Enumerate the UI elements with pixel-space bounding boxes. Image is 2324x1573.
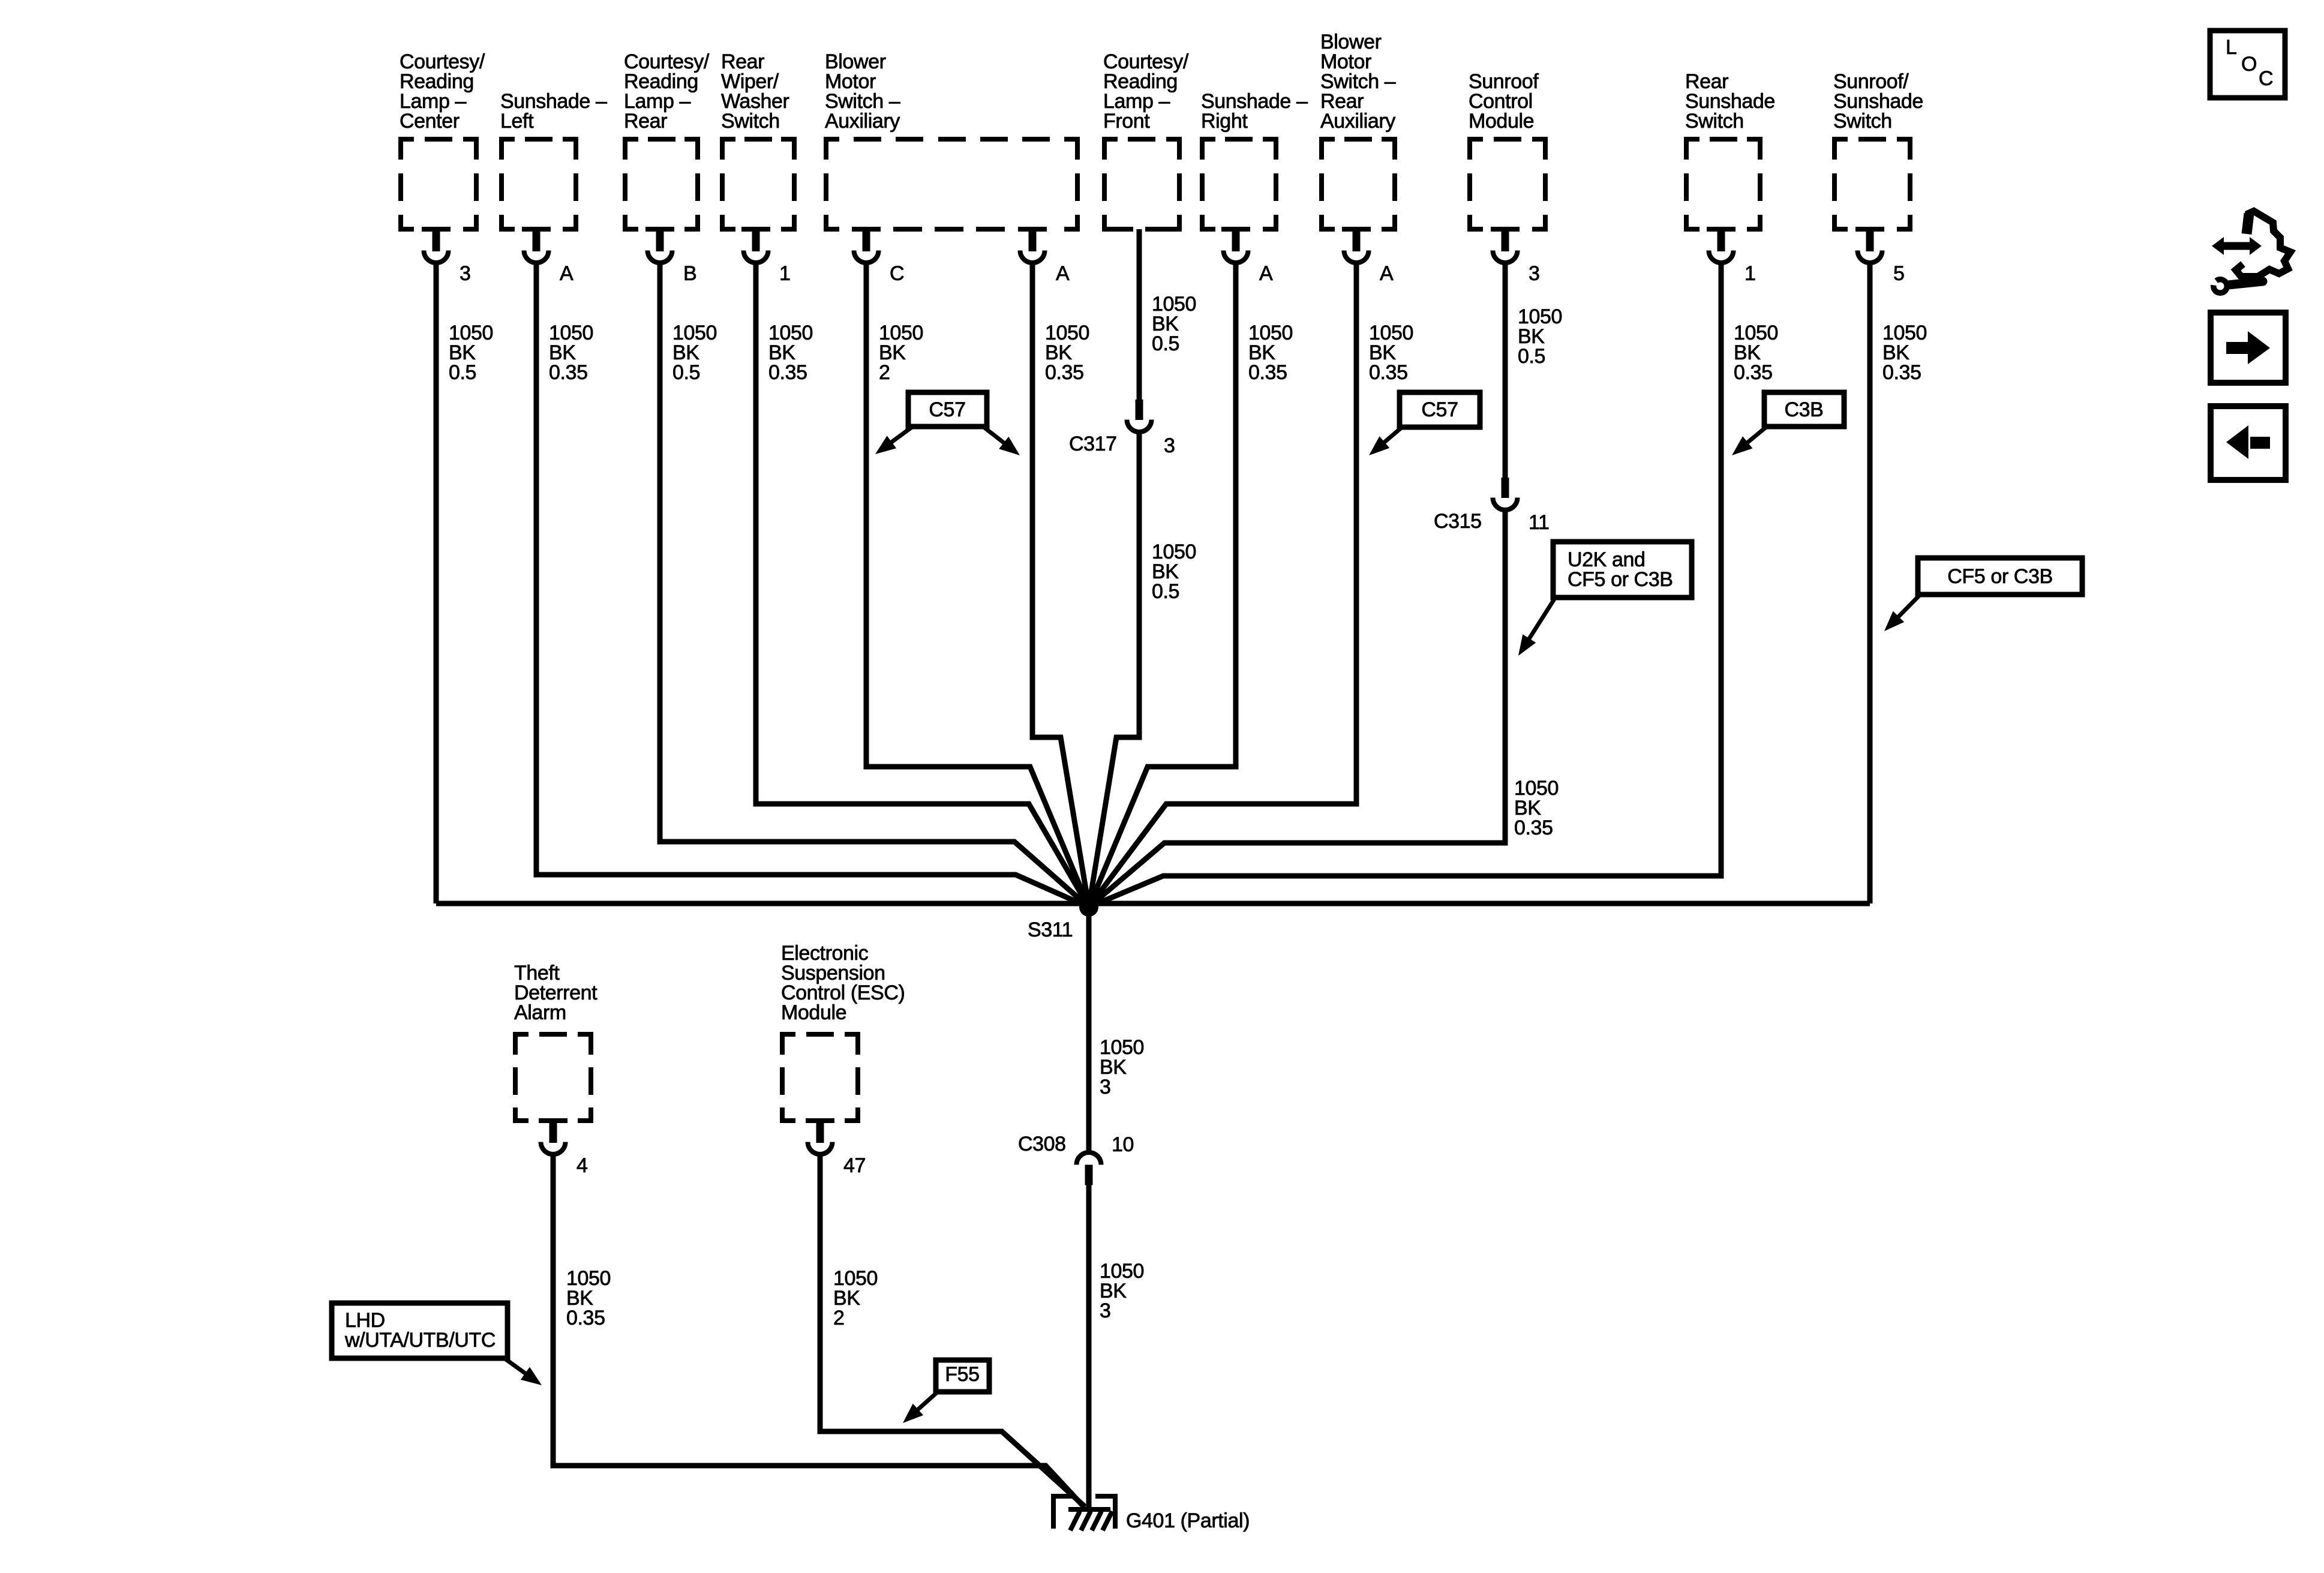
wire label 1050 BK (Sunroof Control Module) [1518,305,1562,368]
svg-text:Module: Module [781,1001,846,1024]
wire from Courtesy/Reading Lamp - Rear pin B to S311 [660,265,1089,907]
wire label 1050 BK (Courtesy/Reading Lamp - Rear) [672,322,717,384]
wire label 1050 BK 0.5 (below C317) [1152,541,1196,603]
component Blower Motor Switch - Rear Auxiliary [1319,31,1397,232]
wire from Theft Deterrent Alarm pin 4 to G401 [553,1156,1085,1508]
connector pin A of Blower Motor Switch - Auxiliary [1020,228,1070,285]
svg-text:2: 2 [879,361,890,384]
wire label 1050 BK (Blower Motor Switch - Rear Auxiliary) [1369,322,1413,384]
svg-text:Front: Front [1103,110,1150,133]
wire label 1050 BK 3 (C308 to G401) [1100,1260,1144,1322]
label CF5 or C3B [1918,558,2082,595]
connector pin A of Sunshade - Right [1224,228,1274,285]
svg-text:3: 3 [1100,1076,1111,1098]
arrow C57 to Blower Motor Switch - Rear Auxiliary wire [1379,428,1401,447]
svg-text:0.35: 0.35 [1882,361,1921,384]
component Theft Deterrent Alarm [513,962,597,1123]
svg-text:CF5 or C3B: CF5 or C3B [1947,565,2053,588]
svg-text:C315: C315 [1434,510,1482,533]
svg-text:Alarm: Alarm [514,1001,566,1024]
wire from Rear Sunshade Switch pin 1 to S311 [1089,265,1721,907]
arrow C57 to Blower Motor Switch - Auxiliary pin C wire [886,427,912,446]
wire label 1050 BK (Courtesy/Reading Lamp - Center) [449,322,493,384]
wire from Sunshade - Left pin A to S311 [536,265,1089,907]
component Rear Sunshade Switch [1684,70,1775,232]
component Sunshade - Right [1200,90,1308,232]
connector pin 4 of Theft Deterrent Alarm [541,1119,588,1177]
label F55 [936,1360,989,1392]
svg-text:C308: C308 [1018,1133,1066,1155]
wire from Sunroof Control Module pin 3 to C315 [1503,265,1508,478]
connector C308 pin 10 [1018,1133,1134,1185]
svg-text:Left: Left [500,110,534,133]
connector pin A of Blower Motor Switch - Rear Auxiliary [1344,228,1394,285]
connector pin B of Courtesy/Reading Lamp - Rear [648,228,697,285]
svg-text:C: C [890,262,904,285]
svg-text:0.35: 0.35 [549,361,588,384]
forward-arrow legend box [2211,313,2286,383]
svg-text:10: 10 [1112,1133,1134,1156]
svg-text:L: L [2226,36,2237,59]
component Electronic Suspension Control (ESC) Module [780,942,905,1123]
wire from S311 to C308 [1086,907,1092,1151]
wire label 1050 BK (Blower Motor Switch - Auxiliary) [1045,322,1089,384]
svg-text:0.5: 0.5 [1152,332,1179,355]
svg-text:0.35: 0.35 [768,361,807,384]
svg-text:C317: C317 [1069,433,1117,455]
component Courtesy/Reading Lamp - Front [1102,50,1189,232]
svg-text:11: 11 [1529,511,1550,534]
component Rear Wiper/Washer Switch [720,50,797,232]
wire from Courtesy/Reading Lamp - Front to C317 [1137,229,1142,400]
svg-text:Module: Module [1469,110,1534,133]
svg-text:0.5: 0.5 [449,361,476,384]
svg-text:3: 3 [1100,1299,1111,1322]
wire label 1050 BK (Sunshade - Left) [549,322,593,384]
arrow F55 to ESC Module wire [912,1392,937,1414]
svg-text:47: 47 [843,1154,866,1177]
label U2K and CF5 or C3B [1553,542,1692,598]
svg-text:Auxiliary: Auxiliary [1320,110,1395,133]
svg-text:Switch: Switch [1685,110,1744,133]
back-arrow legend box [2211,406,2286,480]
svg-text:Center: Center [400,110,460,133]
splice S311 [1028,897,1098,941]
wire label 1050 BK 2 (ESC Module) [833,1267,878,1329]
svg-text:0.35: 0.35 [566,1307,605,1329]
svg-text:0.5: 0.5 [672,361,700,384]
svg-text:O: O [2241,53,2257,76]
component Sunshade - Left [499,90,607,232]
svg-text:C57: C57 [1421,398,1458,421]
svg-text:0.5: 0.5 [1152,580,1179,603]
svg-text:Switch: Switch [1833,110,1892,133]
wire label 1050 BK (Rear Wiper/Washer Switch) [768,322,813,384]
svg-text:B: B [683,262,696,285]
svg-text:Auxiliary: Auxiliary [825,110,900,133]
connector pin 47 of ESC Module [808,1119,866,1177]
connector pin A of Sunshade - Left [524,228,574,285]
wire from Sunroof/Sunshade Switch pin 5 to S311 [1867,265,1873,903]
ground G401 (Partial) [1051,1494,1250,1532]
wire label 1050 BK (Courtesy/Reading Lamp - Front) [1152,293,1196,355]
svg-text:1: 1 [1744,262,1756,285]
svg-text:0.35: 0.35 [1514,816,1553,839]
arrow C3B to Rear Sunshade Switch wire [1742,427,1766,447]
svg-text:C: C [2259,67,2273,90]
svg-text:5: 5 [1893,262,1905,285]
arrow U2K to C315 wire [1526,598,1555,644]
wire from Blower Motor Switch - Auxiliary pin C to S311 [866,265,1089,907]
svg-text:F55: F55 [945,1363,979,1386]
svg-text:A: A [1259,262,1273,285]
label C57 (second) [1400,392,1480,427]
wire from C315 to S311 [1089,511,1505,907]
svg-text:Switch: Switch [721,110,780,133]
svg-text:C3B: C3B [1785,398,1824,421]
label C57 (first) [908,392,987,427]
connector C317 pin 3 [1069,400,1175,457]
svg-text:Rear: Rear [624,110,667,133]
label LHD w/UTA/UTB/UTC [332,1303,508,1358]
component Courtesy/Reading Lamp - Center [398,50,485,232]
svg-text:0.35: 0.35 [1369,361,1408,384]
wire from Courtesy/Reading Lamp - Center pin 3 to S311 [434,265,439,903]
check-connector (wrench) icon [2199,211,2290,296]
svg-text:A: A [560,262,574,285]
component Blower Motor Switch - Auxiliary [824,50,1080,232]
svg-text:0.35: 0.35 [1045,361,1084,384]
wire label 1050 BK 3 (S311 to C308) [1100,1036,1144,1098]
connector pin 5 of Sunroof/Sunshade Switch [1858,228,1905,285]
arrow CF5 or C3B to Sunroof/Sunshade Switch wire [1893,595,1920,622]
wire from C308 to G401 [1086,1185,1092,1509]
wire from ESC Module pin 47 to G401 [820,1156,1085,1506]
connector pin 1 of Rear Wiper/Washer Switch [744,228,791,285]
component Sunroof/Sunshade Switch [1832,70,1923,232]
svg-text:G401 (Partial): G401 (Partial) [1126,1509,1250,1532]
wire label 1050 BK (Rear Sunshade Switch) [1734,322,1778,384]
arrow LHD to Theft Deterrent Alarm wire [505,1359,531,1377]
svg-text:3: 3 [1164,434,1175,457]
label C3B [1764,392,1844,427]
svg-text:0.35: 0.35 [1734,361,1773,384]
connector pin C of Blower Motor Switch - Auxiliary [854,228,904,285]
svg-text:w/UTA/UTB/UTC: w/UTA/UTB/UTC [344,1329,496,1352]
svg-text:CF5 or C3B: CF5 or C3B [1568,568,1673,591]
LOC legend box [2210,31,2285,98]
svg-text:0.5: 0.5 [1518,345,1545,368]
wire label 1050 BK 0.35 (below C315) [1514,777,1559,839]
svg-text:A: A [1380,262,1394,285]
wire from C317 to S311 [1089,433,1139,907]
connector pin 3 of Courtesy/Reading Lamp - Center [424,228,471,285]
wire from Blower Motor Switch - Auxiliary pin A to S311 [1032,265,1089,907]
connector pin 3 of Sunroof Control Module [1493,228,1540,285]
svg-text:0.35: 0.35 [1248,361,1287,384]
svg-text:1: 1 [779,262,791,285]
component Courtesy/Reading Lamp - Rear [623,50,710,232]
connector C315 pin 11 [1434,478,1550,534]
svg-text:A: A [1056,262,1070,285]
svg-text:S311: S311 [1028,918,1073,941]
wire label 1050 BK (Blower Motor Switch - Auxiliary) [879,322,923,384]
arrow C57 to Blower Motor Switch - Auxiliary pin A wire [984,427,1010,447]
svg-text:3: 3 [460,262,471,285]
connector pin 1 of Rear Sunshade Switch [1709,228,1756,285]
wire label 1050 BK (Sunroof/Sunshade Switch) [1882,322,1927,384]
wire label 1050 BK 0.35 (Theft Deterrent Alarm) [566,1267,611,1329]
wire label 1050 BK (Sunshade - Right) [1248,322,1293,384]
svg-text:3: 3 [1529,262,1540,285]
wire bus at splice level [436,901,1870,906]
component Sunroof Control Module [1467,70,1548,232]
svg-text:4: 4 [577,1154,588,1177]
wire from Rear Wiper/Washer Switch pin 1 to S311 [756,265,1089,907]
wire from Sunshade - Right pin A to S311 [1089,265,1236,907]
svg-text:Right: Right [1201,110,1248,133]
svg-text:C57: C57 [929,398,965,421]
svg-text:2: 2 [833,1307,845,1329]
wire from Blower Motor Switch - Rear Auxiliary pin A to S311 [1089,265,1356,907]
